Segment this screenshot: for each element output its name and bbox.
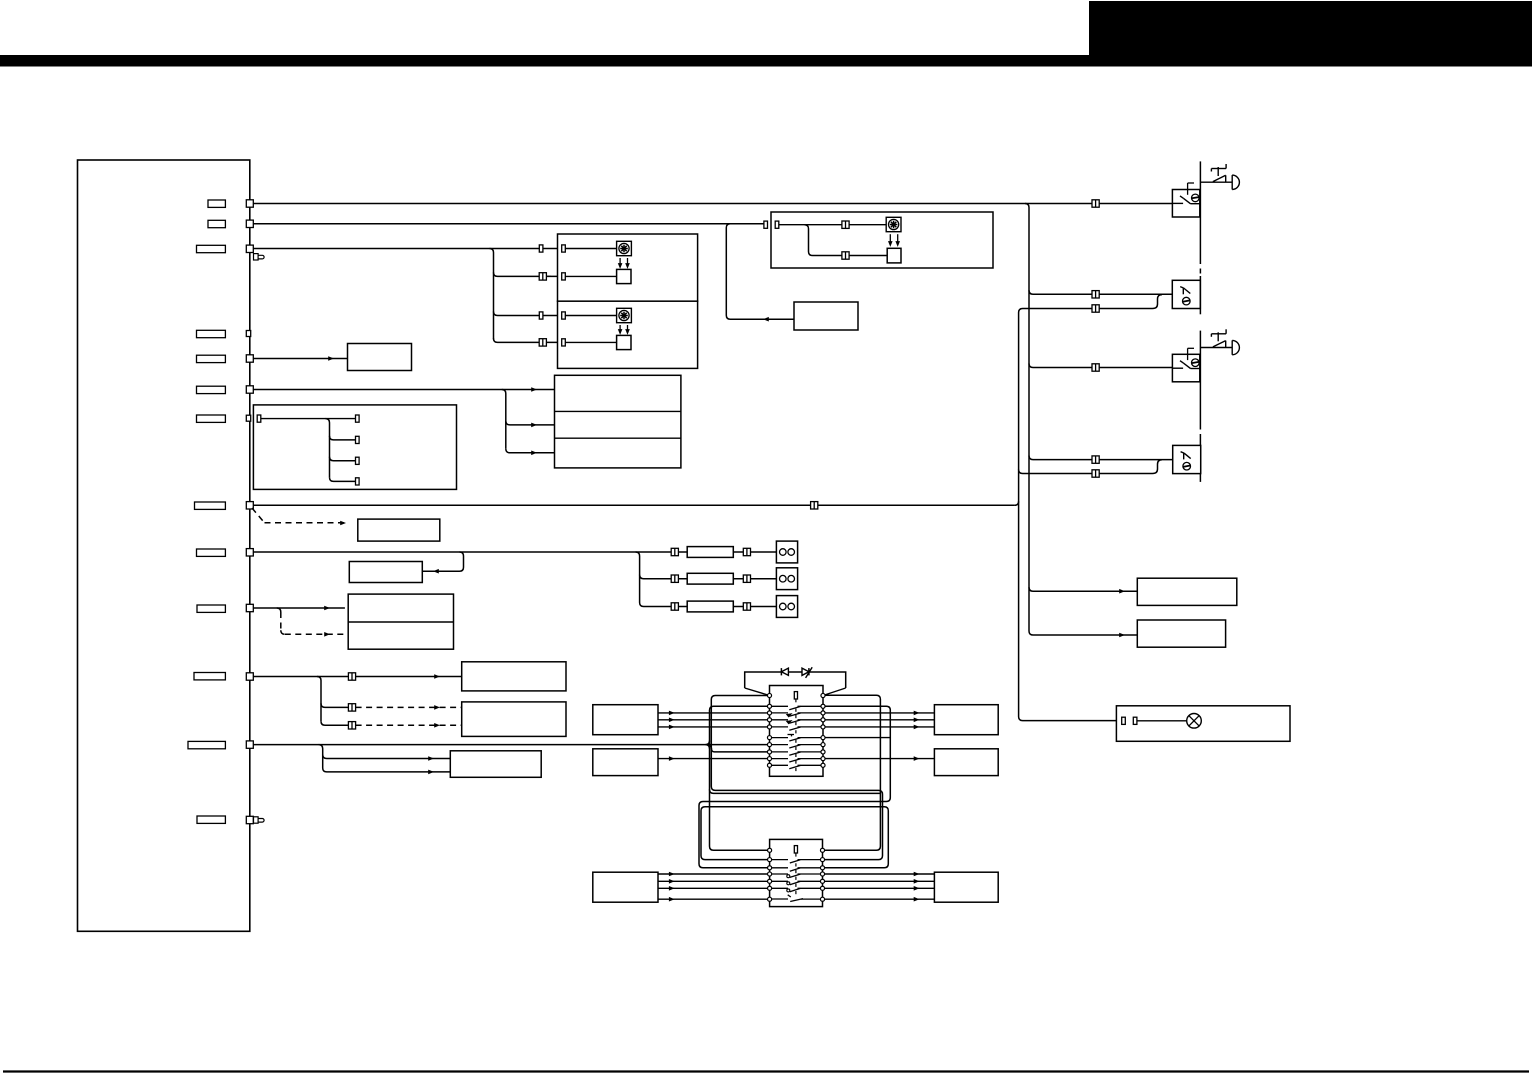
label box R2	[1137, 620, 1225, 647]
contact arrow b	[786, 720, 793, 724]
connector C1 on wire 1	[1092, 200, 1099, 207]
door rail seg1	[1199, 161, 1201, 259]
branch to label box H	[422, 552, 463, 571]
horn unit 3	[776, 596, 797, 618]
module pin 5	[246, 386, 253, 393]
junction to power rail B	[1025, 204, 1029, 208]
arrow row2	[531, 423, 537, 428]
sub switch key symbol	[794, 846, 797, 853]
connector act2 bottom	[1092, 305, 1099, 312]
dashed branch down	[280, 612, 282, 630]
dashed arrow	[340, 521, 346, 526]
arrow	[914, 879, 920, 884]
horn unit 1	[776, 541, 797, 563]
connector act3	[1092, 364, 1099, 371]
wire pin1 to door lock actuator 1	[253, 203, 1172, 205]
relay motor symbol	[886, 217, 901, 231]
mech link dash	[795, 754, 797, 757]
wire colour label 7 (empty)	[197, 415, 226, 422]
mech link dash	[795, 761, 797, 764]
mech link dash	[795, 747, 797, 750]
dual box divider	[348, 621, 453, 623]
stub rt6	[823, 737, 890, 739]
wire lower switch to S6	[823, 887, 935, 889]
module pin 8	[246, 604, 253, 611]
label box B2	[794, 302, 858, 330]
terminal llt3	[768, 866, 772, 870]
switch contact row 4	[772, 720, 822, 723]
relay assembly box	[771, 212, 993, 268]
bulb X2	[1189, 716, 1199, 726]
male stub at pin 3	[254, 254, 259, 260]
terminal t5	[767, 725, 771, 729]
connector on ground wire	[811, 502, 818, 509]
ground rail A	[1019, 313, 1117, 721]
arrow to box R1	[1119, 589, 1125, 594]
connector fuse row1 left	[671, 548, 678, 555]
key link stub	[795, 699, 797, 702]
wire pin2 to relay box	[253, 223, 764, 225]
dual label box	[348, 594, 453, 649]
terminal rt4	[821, 718, 825, 722]
sub switch contact row 2	[772, 860, 821, 863]
control module (multiplex control unit)	[78, 160, 250, 931]
connector act2 mid	[1092, 291, 1099, 298]
module pin (no wire) B	[246, 415, 250, 421]
mech link dash	[795, 768, 797, 771]
fuse F2	[687, 573, 733, 584]
contact arrow a	[786, 713, 793, 717]
loop rt1 to rlt1	[823, 695, 881, 850]
terminal rlt7	[820, 897, 824, 901]
terminal llt5	[768, 879, 772, 883]
module pin 7	[246, 549, 253, 556]
fan unit 1 pin b	[562, 273, 566, 280]
terminal t7	[767, 743, 771, 747]
loop t2 to llt1	[710, 706, 770, 850]
wire colour label 4 (empty)	[197, 330, 226, 337]
dashed wire K2 upper	[356, 706, 462, 708]
mech link dash 2	[795, 884, 797, 887]
diode leg right	[823, 688, 846, 696]
arrow toward junction	[763, 317, 769, 322]
fuse trunk	[636, 552, 688, 607]
terminal t3	[767, 711, 771, 715]
rail B branch box R1	[1029, 587, 1137, 591]
door lock actuator 2	[1172, 280, 1200, 308]
fan unit 2 motor wire	[565, 315, 616, 317]
neutral contact mark	[788, 734, 795, 736]
relay connector a	[842, 221, 849, 228]
fuse branch row 2	[640, 575, 688, 579]
wire lower switch to S6	[823, 880, 935, 882]
arrow	[914, 886, 920, 891]
terminal t2	[767, 704, 771, 708]
fan unit 2 motor symbol	[617, 308, 632, 322]
key link stub 2	[795, 853, 797, 857]
label box K1	[462, 662, 566, 691]
lamp pin 1	[1122, 717, 1126, 724]
branch to K2 lower	[321, 721, 348, 725]
dashed wire to dual box bottom	[285, 633, 344, 635]
arrow row1	[531, 387, 537, 392]
sub-harness branch 3	[330, 457, 356, 461]
fan unit 1 motor symbol	[617, 241, 632, 255]
switch contact row 10	[772, 765, 822, 768]
header title block (black)	[1089, 1, 1532, 67]
wire fuse1 to horn1	[733, 551, 776, 553]
sub-harness wire	[261, 418, 356, 420]
selector trunk	[502, 390, 506, 449]
wire switch to S4	[823, 726, 934, 728]
wire12 branch trunk	[319, 745, 451, 772]
wire pin12 to main switch t7	[253, 744, 769, 746]
selector branch 2	[506, 421, 555, 425]
door rail seg2	[1199, 276, 1201, 314]
sub-harness pin 3	[356, 457, 360, 464]
relay down arrows	[889, 234, 891, 245]
wire12 junction kink	[706, 741, 710, 749]
arrow	[669, 897, 675, 902]
loop t1 to rlt2	[711, 696, 882, 860]
door key cylinder 1	[1200, 181, 1232, 183]
terminal llt7	[768, 897, 772, 901]
terminal t8	[767, 750, 771, 754]
wire switch to S4	[823, 712, 934, 714]
relay internal wire top	[779, 224, 886, 226]
label box R1	[1137, 578, 1237, 605]
connector K2b	[348, 722, 355, 729]
wire colour label 8 (empty)	[195, 502, 226, 509]
label box K2	[462, 702, 566, 737]
label box W5	[348, 344, 412, 371]
terminal t1	[767, 693, 771, 697]
wire colour label 10 (empty)	[197, 605, 225, 612]
dashed branch from pin8	[252, 508, 265, 523]
module pin 11	[246, 816, 253, 823]
loop rlt3 to llt2	[701, 807, 888, 868]
footer rule	[3, 1070, 1529, 1072]
terminal t9	[767, 757, 771, 761]
relay box pin	[775, 221, 779, 228]
arrow	[914, 725, 920, 730]
connector fuse row1 right	[743, 548, 750, 555]
wire colour label 13 (empty)	[197, 816, 225, 823]
arrow L3a	[428, 756, 434, 761]
connector act4 bottom	[1092, 470, 1099, 477]
fan unit 2	[558, 301, 698, 368]
door lock actuator 3 (front passenger)	[1172, 354, 1199, 382]
junction wire10 branch	[277, 608, 281, 612]
key link act3	[1188, 347, 1194, 349]
master switch key symbol	[794, 692, 797, 699]
switch contact row 8	[772, 752, 822, 755]
sub switch body	[770, 839, 823, 906]
connector wire11	[348, 673, 355, 680]
lamp wire	[1137, 720, 1187, 722]
arrow row3	[531, 451, 537, 456]
horn unit 2	[776, 568, 797, 590]
arrow	[914, 897, 920, 902]
door rail dash2	[1199, 425, 1201, 438]
connector at fan unit row4	[539, 339, 546, 346]
sub switch row7 blade	[788, 895, 791, 897]
switch contact row 6	[772, 738, 822, 741]
terminal rt7	[821, 743, 825, 747]
wire pin8 ground rail feed	[253, 504, 1014, 506]
branch wire down to label box B2	[726, 224, 794, 319]
switch contact row 9	[772, 759, 822, 762]
connector fuse row3 right	[743, 603, 750, 610]
connector K2a	[348, 704, 355, 711]
arrow wire10	[324, 606, 330, 611]
wire colour label 5 (empty)	[197, 355, 226, 362]
terminal rt3	[821, 711, 825, 715]
door rail seg4	[1199, 437, 1201, 482]
diode loop wire	[745, 672, 846, 688]
sub-harness branch 2	[330, 436, 356, 440]
terminal t6	[767, 736, 771, 740]
wire S2 to switch t9	[658, 758, 770, 760]
wire S3 to lower switch	[658, 873, 770, 875]
fuse F1	[687, 547, 733, 558]
relay resistor block	[887, 248, 901, 263]
arrow	[914, 872, 920, 877]
mech link dash	[795, 709, 797, 712]
fan branch row2	[494, 272, 562, 276]
arrow to label box H	[433, 569, 439, 574]
arrow	[669, 711, 675, 716]
arrow on wire 5	[328, 356, 334, 361]
label box H	[349, 562, 422, 583]
dashed arrow K2b	[434, 723, 440, 728]
sub-harness pin 1	[356, 415, 360, 422]
sub-harness trunk	[326, 419, 330, 478]
junction into rail A	[1015, 501, 1019, 505]
contact pivot	[787, 882, 790, 885]
wire S3 to lower switch	[658, 898, 770, 900]
diode D2	[802, 668, 809, 675]
mech link dash 2	[795, 870, 797, 873]
interior lamp box	[1116, 706, 1290, 742]
rail B branch actuator 2	[1029, 290, 1172, 294]
terminal rt8	[821, 750, 825, 754]
mech link dash	[795, 730, 797, 733]
sub-harness pin 4	[356, 478, 360, 485]
fan unit 1 down arrows	[619, 258, 621, 267]
label box G1	[358, 519, 440, 541]
arrow	[669, 886, 675, 891]
wire S3 to lower switch	[658, 880, 770, 882]
wire12 branch upper	[323, 755, 451, 759]
dashed arrow K2a	[434, 705, 440, 710]
wire colour label 2 (empty)	[208, 220, 225, 227]
sub switch contact row 5	[772, 881, 821, 884]
rail A branch to actuator4 bottom	[1019, 460, 1162, 474]
fan unit 1	[558, 234, 698, 301]
contact pivot	[787, 889, 790, 892]
selector 3-row box	[555, 375, 681, 468]
rail A branch to actuator2 bottom	[1019, 295, 1162, 313]
arrow	[669, 725, 675, 730]
header rule bar (black)	[0, 55, 1532, 67]
door key cylinder 2	[1200, 347, 1232, 349]
door lock actuator 4	[1173, 445, 1201, 473]
door lock actuator 1 (driver)	[1172, 190, 1199, 218]
fan branch row4	[494, 338, 562, 342]
arrow	[669, 756, 675, 761]
connector fuse row3 left	[671, 603, 678, 610]
male stub at pin 11	[254, 817, 259, 823]
connector fuse row2 left	[671, 575, 678, 582]
right box S6	[934, 872, 998, 902]
terminal rlt4	[820, 872, 824, 876]
jog wire to t8	[710, 746, 770, 752]
loop rt2 to llt3	[699, 706, 890, 868]
terminal llt1	[768, 848, 772, 852]
module pin (no wire) A	[246, 331, 250, 337]
master switch body	[770, 686, 824, 777]
wire colour label 11 (empty)	[194, 673, 225, 680]
bulb X1	[1189, 716, 1199, 726]
fan unit 1 resistor wire	[565, 275, 616, 277]
door rail seg3	[1199, 331, 1201, 425]
relay connector b	[842, 252, 849, 259]
dashed wire to label box	[265, 522, 347, 524]
terminal rlt2	[820, 858, 824, 862]
fan unit 2 pin b	[562, 339, 566, 346]
right box S5	[934, 749, 998, 776]
switch contact row 2	[772, 706, 822, 709]
sub switch contact row 3	[772, 868, 821, 871]
wire S1 to switch	[658, 719, 770, 721]
connector at fan unit row2	[539, 273, 546, 280]
wire S1 to switch	[658, 712, 770, 714]
mech link dash 2	[795, 863, 797, 866]
relay internal branch	[805, 225, 888, 256]
selector divider 1	[555, 410, 681, 412]
mech link dash	[795, 722, 797, 725]
mech link dash	[795, 740, 797, 743]
arrow L3b	[428, 770, 434, 775]
terminal rt10	[821, 763, 825, 767]
selector divider 2	[555, 437, 681, 439]
left box S1	[593, 705, 658, 735]
arrow	[669, 879, 675, 884]
module pin 9	[246, 673, 253, 680]
wire pin3 to fan unit 1	[253, 248, 562, 250]
dashed corner	[281, 630, 285, 634]
branch to K2 upper	[321, 703, 348, 707]
wire lower switch to S6	[823, 898, 935, 900]
dashed arrow wire10	[324, 632, 330, 637]
door rail dash1	[1199, 259, 1201, 276]
arrow	[914, 756, 920, 761]
sub-harness box	[253, 405, 456, 490]
rail B branch actuator 4	[1029, 456, 1173, 460]
module pin 10	[246, 741, 253, 748]
sub-harness branch 4	[330, 477, 356, 481]
wire fuse3 to horn3	[733, 606, 776, 608]
connector act4 mid	[1092, 456, 1099, 463]
arrow	[914, 718, 920, 723]
lamp pin 2	[1133, 717, 1137, 724]
switch contact row 3	[772, 713, 822, 716]
wire11 branch trunk	[317, 677, 321, 722]
loop branch H793	[710, 789, 881, 793]
wire S1 to switch	[658, 726, 770, 728]
power rail B	[1029, 208, 1137, 636]
arrow	[914, 711, 920, 716]
sub-harness pin 2	[356, 436, 360, 443]
arrow to box R2	[1119, 633, 1125, 638]
terminal rlt5	[820, 879, 824, 883]
fan unit 2 down arrows	[619, 325, 621, 333]
label box L3	[450, 751, 541, 778]
fan feed trunk	[490, 249, 494, 340]
terminal llt6	[768, 886, 772, 890]
terminal t4	[767, 718, 771, 722]
arrow	[669, 872, 675, 877]
wire fuse2 to horn2	[733, 578, 776, 580]
key link act1	[1188, 182, 1194, 184]
terminal llt4	[768, 872, 772, 876]
connector fuse row2 right	[743, 575, 750, 582]
mech link dash	[795, 715, 797, 718]
terminal rt5	[821, 725, 825, 729]
sub switch contact row 4	[772, 874, 821, 877]
left box S2	[593, 749, 658, 776]
sub switch row7 stubs	[772, 898, 789, 900]
terminal rlt3	[820, 866, 824, 870]
wire colour label 1 (empty)	[208, 200, 225, 207]
fuse F3	[687, 601, 733, 612]
wire pin9 to fuse row 1	[253, 551, 687, 553]
module pin 4	[246, 355, 253, 362]
pin at fan unit row1	[539, 245, 543, 252]
fan unit 1 motor wire	[565, 248, 616, 250]
wire colour label 3 (empty)	[197, 245, 226, 252]
switch contact row 7	[772, 745, 822, 748]
wire pin11 to label box K1	[253, 676, 461, 678]
right box S4	[934, 705, 998, 735]
module pin 6	[246, 502, 253, 509]
terminal rlt1	[820, 848, 824, 852]
terminal t10	[767, 763, 771, 767]
dashed wire K2 lower	[356, 724, 462, 726]
wire pin6 to selector box	[253, 389, 554, 391]
mech link dash 2	[795, 877, 797, 880]
fan unit 2 resistor wire	[565, 341, 616, 343]
sub switch contact row 6	[772, 888, 821, 891]
fan unit 2 pin a	[562, 312, 566, 319]
diode leg left	[745, 688, 770, 696]
fan unit 2 resistor block	[617, 335, 631, 349]
module pin 2	[246, 220, 253, 227]
wire S3 to lower switch	[658, 887, 770, 889]
terminal llt2	[768, 858, 772, 862]
wire pin5 to label box	[253, 358, 347, 360]
arrow wire11	[434, 674, 440, 679]
wire lower switch to S6	[823, 873, 935, 875]
fan unit 1 resistor block	[617, 269, 631, 283]
pin at fan unit row3	[539, 312, 543, 319]
terminal rt6	[821, 736, 825, 740]
wire colour label 9 (empty)	[197, 549, 226, 556]
rail B branch actuator 3	[1029, 364, 1173, 368]
module pin 1	[246, 200, 253, 207]
switch contact row 5	[772, 727, 822, 730]
